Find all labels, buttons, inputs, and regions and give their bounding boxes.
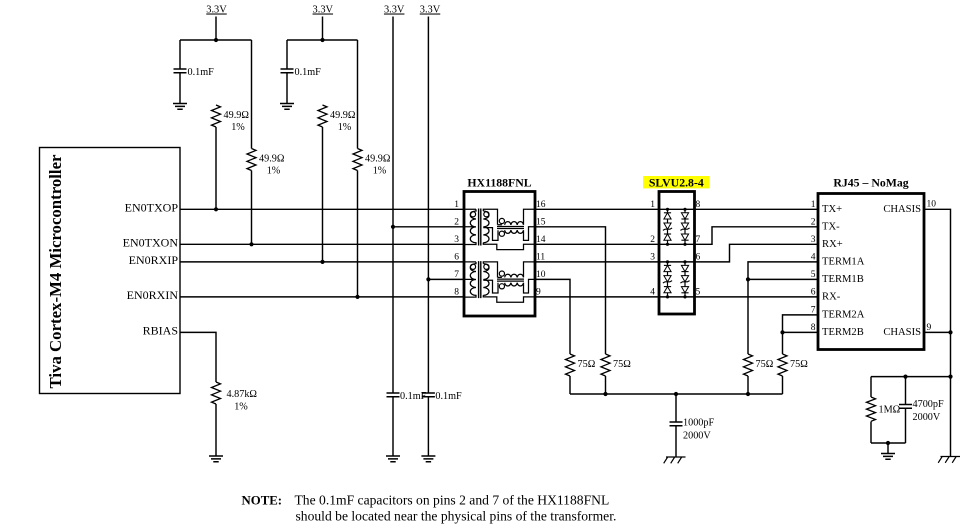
node junction R3/EN0RXIP: [320, 260, 324, 264]
svg-text:TERM1B: TERM1B: [822, 274, 864, 285]
ground earth below C4: [421, 456, 435, 462]
svg-text:8: 8: [696, 200, 701, 210]
ground earth below C1: [173, 104, 187, 110]
svg-text:3.3V: 3.3V: [420, 5, 441, 16]
wire C6 top lead: [905, 377, 907, 405]
wire R4 bottom to EN0RXIN: [357, 171, 359, 297]
wire R2 bottom to EN0TXON: [251, 171, 253, 245]
wire SLVU internal row lines: [659, 243, 695, 245]
ground chassis below C5: [664, 457, 686, 463]
svg-text:1%: 1%: [234, 402, 248, 413]
ground earth below R5: [209, 456, 223, 462]
svg-text:EN0RXIN: EN0RXIN: [127, 288, 179, 302]
wire SLVU pin7 to RJ45 TX-: [695, 227, 819, 245]
wire HX pin15 drop to termination bus: [535, 227, 606, 354]
svg-text:CHASIS: CHASIS: [883, 327, 921, 338]
svg-text:TX-: TX-: [822, 221, 840, 232]
capacitor C6 4700pF 2000V: [899, 405, 912, 409]
wire leg to R2: [251, 40, 253, 149]
wire C6 bottom lead: [905, 408, 907, 443]
ground chassis bottom right: [938, 457, 960, 463]
svg-text:2: 2: [454, 217, 459, 227]
ground earth below C3: [386, 456, 400, 462]
wire 75 ohm bottom lead x=782.5: [782, 376, 784, 394]
node junction rail4/pin7: [426, 277, 430, 281]
wire C3 bottom lead: [392, 397, 394, 456]
capacitor C4 0.1mF bottom rail4: [422, 393, 435, 397]
wire cap C2 top lead: [286, 40, 288, 69]
diode array D1 SLVU2.8-4 highlight: [643, 176, 710, 188]
wire EN0RXIN to HX pin8: [180, 296, 464, 298]
resistor 75 ohm at x=748: [744, 354, 753, 376]
wire CHASIS pin9 stub: [924, 331, 951, 333]
svg-text:9: 9: [927, 323, 932, 333]
svg-text:Tiva Cortex-M4 Microcontroller: Tiva Cortex-M4 Microcontroller: [46, 154, 65, 388]
svg-text:10: 10: [536, 270, 546, 280]
node junction chassis/RC bus: [948, 375, 952, 379]
svg-text:75Ω: 75Ω: [578, 359, 596, 370]
wire HX pin14 to SLVU pin2: [535, 243, 659, 245]
wire RC group bottom bus: [871, 442, 906, 444]
svg-text:TERM2A: TERM2A: [822, 309, 865, 320]
svg-text:RX+: RX+: [822, 239, 843, 250]
svg-text:4: 4: [650, 288, 655, 298]
wire 75 ohm bottom lead x=748: [747, 376, 749, 394]
svg-text:0.1mF: 0.1mF: [295, 67, 322, 78]
wire R5 bottom to ground: [215, 404, 217, 456]
svg-text:15: 15: [536, 217, 546, 227]
svg-text:TERM2B: TERM2B: [822, 327, 864, 338]
wire C5 bottom lead: [675, 426, 677, 457]
wire termination bottom bus: [570, 393, 783, 395]
wire 3.3V rail 3 down to pin2 wire and bottom cap: [392, 17, 394, 394]
svg-text:1%: 1%: [373, 165, 387, 176]
svg-text:16: 16: [536, 200, 546, 210]
transformer T1 lower winding pair pins 6,7,8/11,10,9: [464, 262, 476, 297]
ground earth below RC group: [881, 454, 895, 460]
diode array D1 box: [659, 192, 695, 315]
svg-text:1: 1: [650, 200, 655, 210]
svg-text:3: 3: [454, 235, 459, 245]
wire R1 bottom to EN0TXOP: [215, 127, 217, 209]
svg-text:EN0RXIP: EN0RXIP: [129, 253, 179, 267]
svg-text:8: 8: [454, 288, 459, 298]
svg-text:3: 3: [811, 235, 816, 245]
wire 75 ohm bottom lead x=570: [569, 376, 571, 394]
resistor 75 ohm at x=605.5: [601, 354, 610, 376]
wire C4 bottom lead: [427, 397, 429, 456]
resistor R3 49.9 1%: [318, 105, 327, 127]
wire R3 bottom to EN0RXIP: [322, 127, 324, 262]
ground earth below C2: [280, 104, 294, 110]
svg-text:3.3V: 3.3V: [384, 5, 405, 16]
resistor R9 1M: [867, 397, 876, 421]
svg-text:SLVU2.8-4: SLVU2.8-4: [649, 175, 704, 189]
transformer T1 HX1188FNL box: [464, 192, 535, 317]
wire HX pin16 to SLVU pin1 / RJ45 TX+: [535, 208, 818, 210]
transformer T1 upper winding pair pins 1,2,3/16,15,14: [464, 209, 476, 244]
diode column D1a (pins 1-2 left): [667, 209, 669, 244]
resistor R2 49.9 1%: [247, 149, 256, 171]
svg-text:14: 14: [536, 235, 546, 245]
svg-text:1000pF: 1000pF: [683, 418, 714, 429]
resistor 75 ohm at x=570: [566, 354, 575, 376]
svg-text:CHASIS: CHASIS: [883, 204, 921, 215]
svg-text:should be located near the phy: should be located near the physical pins…: [296, 508, 617, 523]
wire bus group2: [287, 39, 358, 41]
svg-text:RBIAS: RBIAS: [143, 324, 178, 338]
svg-text:4.87kΩ: 4.87kΩ: [227, 389, 258, 400]
resistor R5 4.87k 1%: [212, 382, 221, 404]
svg-text:3.3V: 3.3V: [206, 5, 227, 16]
svg-text:EN0TXON: EN0TXON: [123, 236, 179, 250]
wire R9 bottom lead: [870, 422, 872, 444]
node junction bottom bus/ground: [886, 441, 890, 445]
wire ground stem: [887, 443, 889, 454]
svg-text:TX+: TX+: [822, 204, 842, 215]
svg-text:75Ω: 75Ω: [756, 359, 774, 370]
wire rail4 to HX pin7: [428, 278, 464, 280]
resistor 75 ohm at x=782.5: [778, 354, 787, 376]
wire R9 top lead: [870, 377, 872, 397]
svg-text:7: 7: [696, 235, 701, 245]
svg-text:6: 6: [811, 288, 816, 298]
svg-text:1%: 1%: [338, 122, 352, 133]
svg-text:4700pF: 4700pF: [913, 399, 944, 410]
svg-text:1%: 1%: [267, 165, 281, 176]
node junction rail1/bus1: [214, 38, 218, 42]
connector J1 RJ45 NoMag box: [818, 194, 924, 350]
resistor R1 49.9 1%: [212, 105, 221, 127]
svg-text:75Ω: 75Ω: [613, 359, 631, 370]
wire cap C1 top lead: [179, 40, 181, 69]
wire TERM2B from RJ45: [783, 331, 819, 333]
wire HX pin10 drop to R6: [535, 279, 570, 354]
svg-text:2: 2: [650, 235, 655, 245]
node junction bus/R7: [603, 392, 607, 396]
wire 75 ohm bottom lead x=605.5: [605, 376, 607, 394]
wire HX pin9 to SLVU pin4 / RJ45 RX-: [535, 296, 818, 298]
node junction rail2/bus2: [320, 38, 324, 42]
svg-text:7: 7: [454, 270, 459, 280]
svg-text:2: 2: [811, 218, 816, 228]
svg-text:HX1188FNL: HX1188FNL: [467, 175, 531, 189]
svg-text:5: 5: [696, 288, 701, 298]
svg-text:1%: 1%: [231, 122, 245, 133]
wire 3.3V rail 1 down to bus 1: [215, 17, 217, 41]
svg-text:11: 11: [536, 253, 545, 263]
diode column D1d (pins 6-5 right): [684, 262, 686, 297]
wire EN0TXOP to HX pin1: [180, 208, 464, 210]
node junction TERM2 drop: [780, 330, 784, 334]
wire TERM1A from RJ45 to drop: [748, 262, 818, 354]
wire cap C2 bottom lead: [286, 73, 288, 104]
diode column D1b (pins 8-7 right): [684, 209, 686, 244]
svg-text:EN0TXOP: EN0TXOP: [125, 201, 179, 215]
node junction rail3/pin2: [391, 225, 395, 229]
wire cap C1 bottom lead: [179, 73, 181, 104]
svg-text:6: 6: [454, 253, 459, 263]
svg-text:3: 3: [650, 253, 655, 263]
svg-text:0.1mF: 0.1mF: [188, 67, 215, 78]
svg-text:RX-: RX-: [822, 291, 841, 302]
capacitor C1 0.1mF: [174, 69, 187, 73]
capacitor C2 0.1mF: [281, 69, 294, 73]
node junction bus/C5: [674, 392, 678, 396]
svg-text:1: 1: [811, 200, 816, 210]
capacitor C5 1000pF 2000V: [670, 422, 683, 426]
wire SLVU pin6 to RJ45 RX+: [695, 244, 819, 262]
capacitor C3 0.1mF bottom rail3: [387, 393, 400, 397]
wire EN0TXON to HX pin3: [180, 243, 464, 245]
node junction chassis/pin9: [948, 330, 952, 334]
node junction R1/EN0TXOP: [214, 207, 218, 211]
svg-text:1: 1: [454, 200, 459, 210]
svg-text:9: 9: [536, 288, 541, 298]
svg-text:RJ45 – NoMag: RJ45 – NoMag: [833, 175, 908, 189]
wire TERM2A from RJ45 to drop: [783, 315, 819, 354]
wire C5 top lead: [675, 394, 677, 422]
wire 3.3V rail 4 down to pin7 wire and bottom cap: [427, 17, 429, 394]
svg-text:49.9Ω: 49.9Ω: [365, 154, 391, 165]
svg-text:49.9Ω: 49.9Ω: [330, 110, 356, 121]
svg-text:10: 10: [927, 200, 937, 210]
svg-text:75Ω: 75Ω: [790, 359, 808, 370]
svg-text:NOTE:: NOTE:: [242, 493, 283, 507]
svg-text:The 0.1mF capacitors on pins 2: The 0.1mF capacitors on pins 2 and 7 of …: [295, 492, 610, 507]
wire bus group1: [180, 39, 252, 41]
svg-text:2000V: 2000V: [913, 412, 941, 423]
wire EN0RXIP to HX pin6: [180, 261, 464, 263]
svg-text:6: 6: [696, 253, 701, 263]
svg-text:3.3V: 3.3V: [313, 5, 334, 16]
diode column D1c (pins 3-4 left): [667, 262, 669, 297]
wire TERM1B from RJ45: [748, 278, 818, 280]
wire rail3 to HX pin2: [393, 226, 464, 228]
svg-text:0.1mF: 0.1mF: [435, 391, 462, 402]
node junction TERM1 drop: [746, 277, 750, 281]
node junction bus/R8: [746, 392, 750, 396]
microcontroller U1 Tiva Cortex-M4 box: [40, 148, 181, 394]
node junction top bus/C6: [903, 375, 907, 379]
svg-text:49.9Ω: 49.9Ω: [224, 110, 250, 121]
svg-text:1MΩ: 1MΩ: [879, 405, 901, 416]
svg-text:TERM1A: TERM1A: [822, 256, 865, 267]
resistor R4 49.9 1%: [353, 149, 362, 171]
node junction R2/EN0TXON: [249, 242, 253, 246]
wire leg to R4: [357, 40, 359, 149]
wire 3.3V rail 2 down to bus 2: [322, 17, 324, 41]
node junction R4/EN0RXIN: [355, 295, 359, 299]
wire RC group top bus: [871, 376, 951, 378]
svg-text:2000V: 2000V: [683, 431, 711, 442]
wire CHASIS pin10 to chassis rail: [924, 209, 951, 456]
wire RBIAS to R5: [180, 332, 216, 382]
svg-text:49.9Ω: 49.9Ω: [259, 154, 285, 165]
wire HX pin11 to SLVU pin3: [535, 261, 659, 263]
